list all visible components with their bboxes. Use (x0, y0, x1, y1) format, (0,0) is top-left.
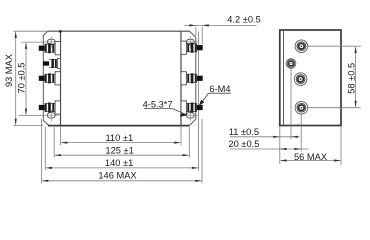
dimension 125 ±1 (54, 127, 189, 158)
end view: earth stud circle (286, 59, 296, 69)
svg-text:11 ±0.5: 11 ±0.5 (229, 127, 259, 137)
svg-text:20 ±0.5: 20 ±0.5 (228, 139, 259, 149)
svg-text:70 ±0.5: 70 ±0.5 (16, 63, 26, 94)
dimension 56 MAX (end view width) (280, 127, 341, 166)
dimension 58 ±0.5 (end view terminal spacing) (308, 46, 361, 107)
end view: terminal circle row 2 (294, 73, 307, 86)
dimension 146 MAX (overall width) (42, 119, 203, 183)
front view: filter body outline (48, 30, 190, 125)
terminal M4 left row 3 (39, 101, 61, 114)
dimension 70 ±0.5 (slot centres vertical) (16, 42, 44, 115)
svg-text:140 ±1: 140 ±1 (105, 158, 133, 168)
svg-text:93 MAX: 93 MAX (4, 54, 14, 87)
dimension 11 ±0.5 (end view earth column) (229, 69, 300, 140)
mounting slot 5.3x7 top-left (44, 36, 59, 47)
front view: left mounting flange with chamfered corners (43, 31, 49, 125)
dimension 20 ±0.5 (end view terminal column) (228, 114, 308, 152)
svg-text:56 MAX: 56 MAX (294, 152, 327, 162)
svg-text:6-M4: 6-M4 (209, 84, 230, 94)
front view: right mounting flange with chamfered corners (190, 31, 199, 170)
terminal M4 right row 1 (181, 41, 203, 54)
end view: housing outline (280, 30, 341, 126)
dimension 93 MAX (height) (4, 31, 48, 125)
label 4-5.3*7 with leader to slot (143, 99, 188, 116)
dimension 110 ±1 (body width) (61, 127, 182, 145)
end view: terminal circle row 3 (295, 101, 308, 114)
svg-text:58 ±0.5: 58 ±0.5 (346, 63, 356, 94)
svg-text:146 MAX: 146 MAX (98, 170, 136, 180)
svg-text:4.2 ±0.5: 4.2 ±0.5 (227, 15, 261, 25)
svg-text:125 ±1: 125 ±1 (105, 145, 133, 155)
terminal M4 left row 1 (39, 42, 61, 55)
mounting slot 5.3x7 bottom-right (183, 110, 198, 121)
terminal M4 left row 2 (39, 72, 61, 85)
earth stud left (43, 58, 61, 68)
dimension 4.2 ±0.5 (terminal protrusion) (184, 15, 261, 45)
end view: terminal circle row 1 (295, 40, 308, 53)
mounting slot 5.3x7 bottom-left (44, 110, 59, 121)
terminal M4 right row 3 (181, 101, 203, 114)
svg-text:4-5.3*7: 4-5.3*7 (143, 99, 173, 109)
label 6-M4 with leader to terminal (199, 84, 231, 106)
mounting slot 5.3x7 top-right (183, 36, 198, 47)
terminal M4 right row 2 (181, 72, 203, 85)
svg-text:110 ±1: 110 ±1 (105, 133, 133, 143)
dimension 140 ±1 (slot centres horizontal) (45, 127, 198, 170)
